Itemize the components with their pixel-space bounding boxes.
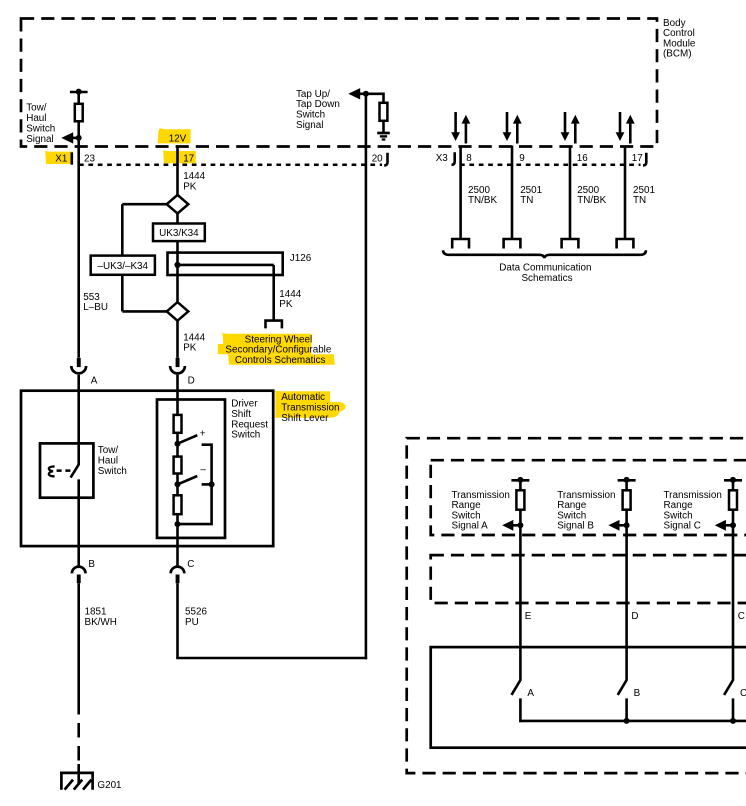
svg-text:Request: Request — [231, 419, 268, 430]
solid box range switch — [431, 647, 746, 748]
resistor R signal B — [623, 490, 631, 509]
connector X3 dotted line — [460, 164, 641, 167]
bracket X1 close — [384, 153, 387, 166]
arrowhead towhaul signal — [61, 132, 73, 143]
wire R2-R3 — [176, 474, 179, 496]
wire A to box — [77, 375, 80, 465]
svg-text:Secondary/Configurable: Secondary/Configurable — [225, 345, 331, 356]
wire branch left horizontal top — [122, 203, 166, 206]
wire arrow stub C — [724, 524, 733, 527]
svg-text:Signal: Signal — [26, 134, 53, 145]
junction dot arrow A — [517, 522, 523, 528]
switch blade tow/haul — [71, 465, 79, 478]
wire B to bus — [625, 698, 628, 721]
highlight steering line2 — [218, 344, 312, 354]
svg-text:23: 23 — [84, 154, 95, 165]
terminal pin16 — [560, 239, 579, 249]
svg-text:Automatic: Automatic — [281, 392, 325, 403]
ground G201 symbol — [60, 773, 94, 790]
wire pin16 — [569, 146, 572, 240]
svg-text:9: 9 — [519, 153, 525, 164]
svg-text:PU: PU — [185, 617, 199, 628]
svg-text:Tow/: Tow/ — [98, 445, 119, 456]
svg-text:A: A — [527, 688, 534, 699]
svg-text:UK3/K34: UK3/K34 — [159, 228, 199, 239]
junction dot bus C — [730, 718, 736, 724]
switch blade A — [512, 681, 521, 695]
terminal pin8 — [451, 239, 470, 249]
wire 1444 PK from pin17 — [176, 146, 179, 197]
box tow/haul switch — [40, 443, 93, 497]
svg-text:C: C — [738, 611, 745, 622]
svg-text:Switch: Switch — [231, 430, 260, 441]
svg-text:Tap Down: Tap Down — [296, 99, 340, 110]
svg-text:1444: 1444 — [183, 171, 205, 182]
wire 5526 bottom horizontal — [176, 657, 367, 660]
outer dashed box TRS — [407, 438, 746, 773]
terminal steering wheel — [264, 321, 283, 329]
bracket X3 close — [643, 153, 646, 166]
svg-text:(BCM): (BCM) — [663, 49, 692, 60]
resistor R-towhaul — [75, 104, 83, 122]
bracket X1 open — [71, 152, 74, 164]
svg-text:Signal C: Signal C — [664, 520, 701, 531]
terminal bar signal C — [724, 479, 742, 482]
X3 arrow pair pin9 down — [506, 112, 509, 134]
connector D male pin — [176, 358, 180, 367]
svg-text:8: 8 — [466, 153, 472, 164]
wire branch left horizontal bottom — [122, 310, 166, 313]
wire dashed to ground — [77, 700, 80, 772]
svg-text:16: 16 — [577, 153, 588, 164]
svg-text:2501: 2501 — [520, 185, 542, 196]
highlight ATSL line3 — [275, 412, 339, 417]
box automatic transmission shift lever — [21, 391, 273, 546]
resistor R signal C — [729, 490, 737, 509]
arrowhead signal B — [608, 520, 619, 531]
svg-text:C: C — [187, 559, 194, 570]
highlight X1 — [44, 151, 73, 164]
highlight 12V — [158, 128, 191, 143]
arrowhead tap signal — [348, 88, 360, 99]
option box -UK3/-K34 — [91, 256, 155, 275]
terminal pin9 — [502, 239, 521, 249]
wire pin23 down to connector A — [77, 121, 80, 357]
highlight steering line1 — [221, 333, 312, 344]
svg-text:Switch: Switch — [296, 110, 325, 121]
svg-text:Data Communication: Data Communication — [499, 263, 591, 274]
inner dashed box lower — [431, 555, 746, 603]
svg-text:5526: 5526 — [185, 606, 207, 617]
wire R3 to connector C — [176, 514, 179, 566]
resistor R signal A — [516, 490, 524, 509]
wire pin23 vertical (BCM internal) — [77, 92, 80, 105]
svg-text:20: 20 — [372, 154, 383, 165]
connector B female cup — [72, 567, 86, 574]
svg-text:C: C — [740, 688, 746, 699]
svg-text:Tap Up/: Tap Up/ — [296, 89, 330, 100]
svg-text:X1: X1 — [55, 154, 68, 165]
resistor R-tap — [380, 103, 388, 121]
svg-text:A: A — [91, 376, 98, 387]
svg-text:Switch: Switch — [98, 466, 127, 477]
junction dot bus B — [624, 718, 630, 724]
svg-text:Haul: Haul — [26, 113, 46, 124]
brace data communication — [443, 250, 646, 258]
svg-text:TN/BK: TN/BK — [468, 195, 497, 206]
switch blade C — [724, 681, 733, 695]
svg-text:12V: 12V — [169, 133, 187, 144]
BCM dashed box — [21, 19, 657, 147]
terminal dot signal B — [624, 477, 630, 483]
svg-text:–: – — [200, 464, 206, 475]
svg-text:B: B — [634, 688, 641, 699]
junction dot towhaul arrow — [76, 135, 82, 141]
svg-text:Transmission: Transmission — [281, 402, 339, 413]
X3 arrow pair pin8 down — [454, 112, 457, 134]
svg-text:TN/BK: TN/BK — [577, 195, 606, 206]
wire pin20 vertical long (5526 PU up leg) — [365, 94, 368, 660]
resistor R1 shift — [174, 415, 182, 433]
wire signal B upper — [625, 480, 628, 491]
connector C female cup — [171, 567, 185, 574]
svg-text:PK: PK — [183, 182, 197, 193]
svg-text:Steering Wheel: Steering Wheel — [245, 334, 313, 345]
svg-text:1444: 1444 — [183, 332, 205, 343]
wire D to box — [176, 375, 179, 415]
junction dot node1 — [175, 441, 181, 447]
switch blade minus — [178, 476, 198, 484]
svg-text:553: 553 — [83, 292, 100, 303]
svg-text:E: E — [525, 611, 532, 622]
wire inside J126 horizontal — [178, 264, 274, 267]
wire branch left vertical — [121, 204, 124, 311]
wire J126 right leg down — [272, 265, 275, 321]
svg-text:2500: 2500 — [577, 185, 599, 196]
ground (BCM internal) — [377, 132, 390, 135]
svg-text:L–BU: L–BU — [83, 302, 108, 313]
wire tap branch vertical — [382, 93, 385, 104]
wire arrow stub towhaul — [70, 137, 79, 140]
wire arrow stub B — [617, 524, 626, 527]
X3 arrow pair pin16 up — [571, 115, 580, 124]
option box UK3/K34 — [153, 224, 205, 242]
svg-text:Controls Schematics: Controls Schematics — [235, 355, 326, 366]
svg-text:Switch: Switch — [26, 124, 55, 135]
svg-text:Shift: Shift — [231, 409, 251, 420]
connector box J126 — [168, 253, 283, 275]
svg-text:Driver: Driver — [231, 399, 258, 410]
wire plus contact top — [178, 445, 212, 524]
junction dot node2 — [175, 481, 181, 487]
terminal dot — [76, 89, 82, 95]
wire C down to bottom corner — [176, 583, 179, 658]
wire below lower diamond — [176, 321, 179, 358]
svg-text:X3: X3 — [436, 153, 449, 164]
highlight ATSL line1 — [275, 391, 331, 402]
wire tap branch horizontal — [366, 93, 384, 96]
wire A to bus — [519, 698, 522, 722]
wire minus contact stub — [202, 483, 212, 486]
wire pin8 — [459, 146, 462, 240]
terminal bar signal A — [511, 479, 529, 482]
wire to internal ground — [382, 121, 385, 133]
svg-text:PK: PK — [183, 343, 197, 354]
junction dot arrow C — [730, 522, 736, 528]
inner dashed box upper — [431, 460, 746, 535]
connector C male pin — [176, 575, 180, 584]
wire diamond to lower diamond — [176, 214, 179, 303]
switch blade plus — [178, 435, 198, 444]
svg-text:Shift Lever: Shift Lever — [281, 413, 329, 424]
wire out of tow/haul switch — [77, 479, 80, 566]
splice diamond upper — [167, 195, 189, 214]
junction dot J126 — [174, 262, 180, 268]
X3 arrow pair pin8 up — [462, 115, 471, 124]
junction dot minus contact — [209, 481, 215, 487]
splice diamond lower — [167, 302, 189, 321]
X3 arrow pair pin17 down — [619, 112, 622, 134]
svg-text:G201: G201 — [97, 780, 122, 791]
resistor R2 shift — [174, 457, 182, 474]
svg-text:2501: 2501 — [633, 185, 655, 196]
svg-text:B: B — [88, 559, 95, 570]
wire into tow/haul switch — [77, 443, 80, 465]
wire signal A down — [519, 510, 522, 681]
svg-text:17: 17 — [183, 154, 194, 165]
bracket X3 open — [452, 152, 455, 165]
svg-text:TN: TN — [520, 195, 533, 206]
box driver shift request switch — [157, 400, 225, 538]
connector X1 dotted line — [79, 164, 382, 167]
connector A male pin — [77, 358, 81, 367]
wire signal C upper — [732, 480, 735, 491]
X3 arrow pair pin16 down — [564, 112, 567, 134]
terminal pin17 X3 — [615, 239, 634, 249]
switch blade B — [618, 681, 627, 695]
bus wire bottom — [519, 720, 746, 723]
junction dot arrow B — [624, 522, 630, 528]
terminal dot signal A — [517, 477, 523, 483]
svg-text:PK: PK — [279, 299, 293, 310]
switch actuator dashes — [57, 469, 74, 472]
highlight 17 (pin) — [162, 150, 195, 163]
svg-text:BK/WH: BK/WH — [85, 617, 117, 628]
ground G201 stub — [77, 764, 80, 784]
svg-text:J126: J126 — [290, 253, 312, 264]
wire C to bus — [732, 698, 735, 721]
svg-text:Schematics: Schematics — [521, 273, 572, 284]
svg-text:17: 17 — [632, 153, 643, 164]
arrowhead signal A — [502, 520, 513, 531]
svg-text:Signal: Signal — [296, 120, 323, 131]
X3 arrow pair pin9 up — [513, 115, 522, 124]
wire pin9 — [511, 146, 514, 240]
terminal bar signal B — [618, 479, 636, 482]
svg-text:1444: 1444 — [279, 289, 301, 300]
terminal bar atop R-towhaul — [70, 91, 88, 94]
resistor R3 shift — [174, 495, 182, 514]
wire signal B down — [625, 510, 628, 681]
arrowhead signal C — [715, 520, 726, 531]
junction dot node3 — [175, 521, 181, 527]
switch actuator epsilon — [49, 466, 55, 476]
svg-text:Signal A: Signal A — [452, 520, 489, 531]
svg-text:–UK3/–K34: –UK3/–K34 — [98, 261, 149, 272]
connector B male pin — [77, 575, 81, 584]
svg-text:Tow/: Tow/ — [26, 103, 47, 114]
svg-text:Haul: Haul — [98, 456, 118, 467]
wire arrow stub A — [511, 524, 520, 527]
connector A female cup — [71, 366, 86, 373]
svg-text:2500: 2500 — [468, 185, 490, 196]
wire pin17 X3 — [624, 146, 627, 240]
svg-text:Signal B: Signal B — [557, 520, 594, 531]
X3 arrow pair pin17 up — [626, 115, 635, 124]
wire signal C down — [732, 510, 735, 681]
junction dot tap — [363, 91, 369, 97]
connector D female cup — [170, 366, 185, 373]
wire signal A upper — [519, 480, 522, 491]
wire R1-R2 — [176, 433, 179, 457]
highlight steering line3 — [228, 354, 335, 365]
ground G201 hatches — [65, 780, 92, 790]
svg-text:D: D — [631, 611, 638, 622]
highlight ATSL line2 — [275, 402, 345, 412]
wire arrow stub tap — [357, 93, 366, 96]
svg-text:D: D — [188, 376, 195, 387]
svg-text:+: + — [200, 428, 206, 439]
terminal dot signal C — [730, 477, 736, 483]
svg-text:TN: TN — [633, 195, 646, 206]
svg-text:1851: 1851 — [85, 606, 107, 617]
wire B down — [77, 583, 80, 700]
